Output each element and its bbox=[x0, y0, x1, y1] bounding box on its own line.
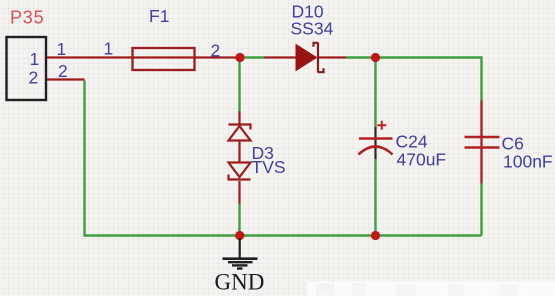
svg-text:GND: GND bbox=[215, 270, 265, 295]
svg-text:1: 1 bbox=[57, 39, 67, 59]
svg-text:SS34: SS34 bbox=[291, 19, 334, 39]
svg-text:2: 2 bbox=[211, 41, 221, 61]
svg-text:C24: C24 bbox=[396, 131, 428, 151]
svg-text:100nF: 100nF bbox=[503, 152, 553, 172]
svg-text:2: 2 bbox=[29, 68, 39, 88]
svg-text:1: 1 bbox=[30, 49, 40, 69]
svg-text:1: 1 bbox=[104, 39, 114, 59]
svg-text:P35: P35 bbox=[10, 8, 44, 28]
svg-text:2: 2 bbox=[58, 61, 68, 81]
svg-text:F1: F1 bbox=[149, 6, 169, 26]
svg-text:470uF: 470uF bbox=[397, 149, 447, 169]
svg-text:TVS: TVS bbox=[252, 157, 286, 177]
svg-text:C6: C6 bbox=[502, 134, 524, 154]
